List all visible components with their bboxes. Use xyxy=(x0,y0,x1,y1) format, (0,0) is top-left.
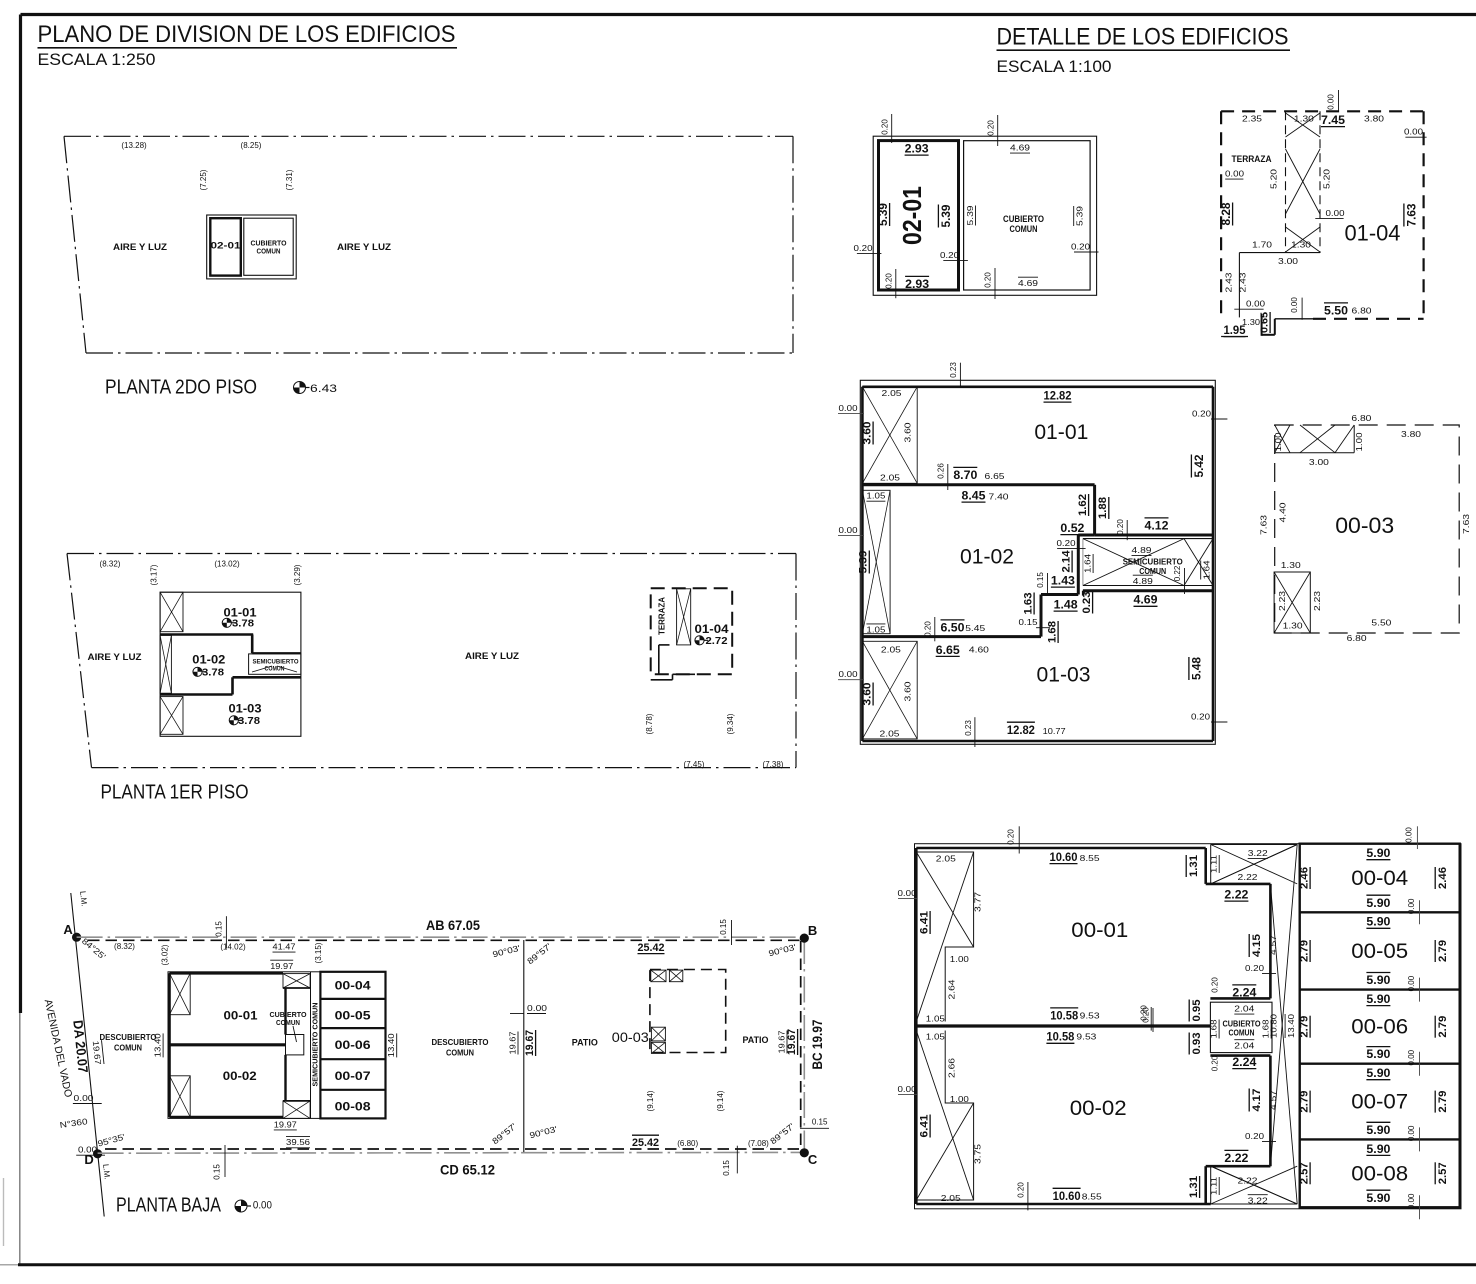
dimension 4.15 xyxy=(1249,934,1263,957)
dimension 5.39 01-02 xyxy=(858,551,870,574)
dimension (3.02) xyxy=(161,944,170,965)
dimension 2.79 right 00-07 xyxy=(1435,1091,1449,1113)
svg-text:6.65: 6.65 xyxy=(985,471,1005,481)
svg-text:12.82: 12.82 xyxy=(1044,389,1072,403)
dimension 2.22 bottom triangle xyxy=(1238,1176,1258,1186)
label 01-04 +2.72 xyxy=(695,624,730,647)
dimension 6.41 00-01 xyxy=(919,911,931,934)
svg-text:5.39: 5.39 xyxy=(965,205,975,225)
svg-text:19.67: 19.67 xyxy=(776,1030,786,1053)
dimension 5.42 xyxy=(1191,454,1206,477)
dimension 0.00 00-05 xyxy=(1407,975,1420,1001)
svg-text:5.39: 5.39 xyxy=(858,551,870,574)
patio shaft 00-01 top-left xyxy=(170,973,191,1014)
svg-text:5.20: 5.20 xyxy=(1269,169,1279,189)
svg-text:4.60: 4.60 xyxy=(969,645,989,655)
svg-text:8.28: 8.28 xyxy=(1219,202,1233,225)
dimension 3.75 xyxy=(973,1144,983,1164)
label TERRAZA detail xyxy=(1232,154,1272,164)
svg-text:0.00: 0.00 xyxy=(78,1145,97,1155)
dimension 0.00 mid xyxy=(1315,208,1345,219)
dimension 19.97 top xyxy=(270,960,293,971)
svg-text:0.00: 0.00 xyxy=(1246,299,1265,309)
svg-text:1.00: 1.00 xyxy=(950,954,969,964)
dimension (13.28) xyxy=(121,141,147,150)
dimension (7.38) xyxy=(763,760,784,769)
svg-text:2.14: 2.14 xyxy=(1061,550,1073,573)
svg-text:2.43: 2.43 xyxy=(1224,272,1234,292)
svg-text:2.04: 2.04 xyxy=(1234,1041,1254,1051)
dimension 2.05 bottom 00-02 xyxy=(941,1193,961,1203)
property line AB xyxy=(77,937,805,940)
svg-text:0.15: 0.15 xyxy=(722,1160,731,1176)
svg-text:2.72: 2.72 xyxy=(706,635,728,647)
dimension 0.20 top-mid xyxy=(987,115,998,146)
svg-text:(3.29): (3.29) xyxy=(293,564,302,585)
svg-text:0.23: 0.23 xyxy=(949,362,958,378)
svg-text:10.80: 10.80 xyxy=(1269,1014,1279,1038)
benchmark 6.43 xyxy=(294,382,338,396)
svg-text:1.30: 1.30 xyxy=(1281,560,1301,570)
svg-text:5.90: 5.90 xyxy=(1366,1047,1390,1061)
svg-text:0.00: 0.00 xyxy=(839,525,858,535)
dimension 9.53 lower xyxy=(1076,1032,1096,1042)
svg-text:3.75: 3.75 xyxy=(973,1144,983,1164)
svg-text:6.65: 6.65 xyxy=(936,643,960,657)
svg-text:0.15: 0.15 xyxy=(1019,617,1038,627)
angle 90°03' top xyxy=(491,943,521,960)
label CUBIERTO COMUN xyxy=(270,1010,307,1027)
dimension 1.05 top xyxy=(866,491,885,502)
dimension 0.23 top xyxy=(949,362,960,387)
label 0.00 at D xyxy=(76,1145,105,1156)
svg-text:5.39: 5.39 xyxy=(939,204,953,227)
label 00-05 detail xyxy=(1351,940,1408,963)
svg-text:0.15: 0.15 xyxy=(812,1118,828,1127)
label AVENIDA DEL VADO xyxy=(42,998,75,1098)
label L.M. below D xyxy=(101,1164,112,1180)
svg-text:0.20: 0.20 xyxy=(1057,538,1076,548)
svg-text:PLANTA BAJA: PLANTA BAJA xyxy=(116,1195,222,1217)
svg-text:0.20: 0.20 xyxy=(987,120,996,136)
svg-text:19.67: 19.67 xyxy=(786,1029,798,1055)
svg-text:COMUN: COMUN xyxy=(265,666,285,673)
svg-text:2.22: 2.22 xyxy=(1224,1151,1248,1165)
svg-text:2.57: 2.57 xyxy=(1299,1162,1311,1184)
svg-text:0.20: 0.20 xyxy=(1192,409,1211,419)
dimension 4.12 xyxy=(1145,518,1169,533)
svg-text:25.42: 25.42 xyxy=(632,1137,659,1149)
dimension 2.23 right xyxy=(1312,591,1322,611)
label 02-01 xyxy=(211,241,242,252)
svg-text:01-01: 01-01 xyxy=(1034,421,1088,444)
svg-text:0.26: 0.26 xyxy=(937,463,946,479)
dimension 19.67 right bold xyxy=(786,1029,798,1055)
dimension 5.20 left xyxy=(1269,169,1279,189)
svg-text:2.79: 2.79 xyxy=(1299,1016,1311,1038)
street line DA (L.M.) xyxy=(71,893,104,1217)
dimension 6.80 bottom xyxy=(1352,306,1372,316)
svg-text:0.00: 0.00 xyxy=(527,1003,547,1013)
unit 00-03 detail dashed outline xyxy=(1275,425,1460,633)
dimension 0.23 near 1.48 xyxy=(1081,592,1093,614)
stair shaft 01-04 xyxy=(677,589,691,645)
svg-text:(14.02): (14.02) xyxy=(220,943,246,952)
svg-text:0.95: 0.95 xyxy=(1191,1000,1203,1022)
dimension 0.00 bottom-left xyxy=(1234,299,1265,310)
svg-text:3.22: 3.22 xyxy=(1248,848,1268,858)
dimension 0.65 xyxy=(1259,312,1271,333)
svg-text:DETALLE DE LOS EDIFICIOS: DETALLE DE LOS EDIFICIOS xyxy=(997,24,1289,51)
terrace step solid walls xyxy=(1239,253,1320,318)
svg-text:7.40: 7.40 xyxy=(989,492,1009,502)
svg-text:(13.28): (13.28) xyxy=(121,141,147,150)
dimension 0.20 top 00 xyxy=(1007,826,1020,853)
dimension 2.22 bottom xyxy=(1224,1150,1248,1165)
dimension 5.50 xyxy=(1371,618,1391,628)
dimension 1.05 00-01 xyxy=(926,1014,945,1024)
dimension 1.00 00-01 xyxy=(950,954,969,964)
dimension 8.45 xyxy=(962,489,986,503)
svg-text:5.42: 5.42 xyxy=(1192,454,1206,477)
dimension 4.40 xyxy=(1278,502,1288,522)
svg-text:0.00: 0.00 xyxy=(1326,208,1345,218)
dimension 5.39 left xyxy=(876,203,890,226)
svg-text:2.22: 2.22 xyxy=(1238,1176,1258,1186)
svg-text:0.23: 0.23 xyxy=(1081,592,1093,614)
svg-text:(7.45): (7.45) xyxy=(684,760,705,769)
svg-text:1.64: 1.64 xyxy=(1202,560,1212,579)
svg-text:4.17: 4.17 xyxy=(1251,1089,1263,1112)
label BC 19.97 xyxy=(810,1020,825,1070)
svg-text:0.00: 0.00 xyxy=(1405,827,1414,843)
dimension 1.68 right xyxy=(1261,1019,1272,1038)
svg-text:10.58: 10.58 xyxy=(1050,1009,1078,1023)
unit 02-01 cell xyxy=(210,218,241,275)
node C xyxy=(800,1148,818,1167)
dimension 19.67 right small xyxy=(776,1030,787,1053)
label 0.00 at divider xyxy=(510,1003,547,1014)
dimension 0.20 mid xyxy=(940,250,968,261)
svg-text:0.20: 0.20 xyxy=(1191,712,1210,722)
dimension 5.48 xyxy=(1189,657,1204,680)
dimension 2.93 bottom xyxy=(905,276,929,291)
cubierto comun box detail xyxy=(1210,1002,1272,1052)
label SEMICUBIERTO COMUN detail xyxy=(1123,557,1183,577)
svg-text:5.90: 5.90 xyxy=(1366,846,1390,860)
dimension (13.02) xyxy=(214,560,240,569)
dimension 1.63 xyxy=(1023,593,1035,615)
dimension 1.00 left xyxy=(1273,432,1283,451)
svg-text:CUBIERTO: CUBIERTO xyxy=(251,241,288,248)
label 00-02 detail xyxy=(1070,1097,1127,1120)
svg-text:1.64: 1.64 xyxy=(1083,554,1093,573)
svg-text:ESCALA 1:100: ESCALA 1:100 xyxy=(997,57,1112,76)
svg-text:3.22: 3.22 xyxy=(1248,1196,1268,1206)
svg-text:PLANO DE DIVISION DE LOS: PLANO DE DIVISION DE LOS EDIFICIOS xyxy=(38,21,456,48)
units column 00-04..00-08 xyxy=(320,972,385,1119)
dimension 0.52 xyxy=(1060,521,1084,535)
dimension 1.05 00-02 xyxy=(926,1032,945,1042)
svg-text:2.22: 2.22 xyxy=(1224,888,1248,902)
svg-text:02-01: 02-01 xyxy=(211,241,242,252)
node A xyxy=(63,922,81,942)
dimension 0.00 00-04 xyxy=(1407,898,1420,924)
svg-text:2.79: 2.79 xyxy=(1437,1016,1449,1038)
cubierto comun cell xyxy=(244,218,293,275)
dimension 1.68 left xyxy=(1209,1019,1220,1038)
svg-text:13.40: 13.40 xyxy=(153,1033,163,1057)
svg-text:2.46: 2.46 xyxy=(1437,867,1449,889)
svg-text:00-03: 00-03 xyxy=(612,1029,649,1045)
building 00 outer outline xyxy=(168,972,386,1119)
svg-text:10.77: 10.77 xyxy=(1043,726,1066,736)
svg-text:0.20: 0.20 xyxy=(885,273,894,289)
dimension 2.46 right 00-04 xyxy=(1435,867,1449,889)
label TERRAZA xyxy=(658,597,667,635)
svg-text:0.15: 0.15 xyxy=(215,921,224,937)
dimension 2.79 left 00-05 xyxy=(1299,940,1311,962)
svg-text:TERRAZA: TERRAZA xyxy=(1232,154,1272,164)
dimension 3.60 bold xyxy=(862,422,874,445)
00-03 shafts top xyxy=(651,970,683,982)
dimension 3.00 xyxy=(1278,256,1298,266)
svg-text:0.20: 0.20 xyxy=(1245,963,1264,973)
svg-text:(7.25): (7.25) xyxy=(199,169,208,190)
label DA 20.07 along street xyxy=(70,1019,90,1073)
svg-text:0.00: 0.00 xyxy=(1407,1193,1416,1209)
dimension (3.29) xyxy=(293,564,302,585)
svg-text:1.88: 1.88 xyxy=(1097,497,1109,519)
cubierto comun stair box xyxy=(286,1026,304,1055)
svg-text:B: B xyxy=(808,923,817,938)
svg-text:1.30: 1.30 xyxy=(1294,114,1314,124)
dimension 4.69 bottom xyxy=(1018,277,1038,288)
svg-text:4.89: 4.89 xyxy=(1132,545,1152,555)
svg-text:5.90: 5.90 xyxy=(1366,915,1390,929)
dimension 7.63 left xyxy=(1259,515,1269,535)
svg-text:0.15: 0.15 xyxy=(719,919,728,935)
svg-text:02-01: 02-01 xyxy=(897,186,927,245)
dimension 0.15 bottom xyxy=(213,1145,226,1180)
entry triangle bottom xyxy=(1211,1166,1298,1204)
svg-text:(8.25): (8.25) xyxy=(241,141,262,150)
node D xyxy=(84,1149,102,1167)
dimension 19.67 small xyxy=(507,1031,518,1054)
svg-text:19.67: 19.67 xyxy=(507,1031,517,1054)
dimension 0.00 bottom-mid xyxy=(1290,297,1302,320)
dimension 2.22 top xyxy=(1224,888,1248,902)
dimension 0.20 near 4.12 xyxy=(1116,519,1127,541)
dimension 1.70 xyxy=(1252,240,1272,250)
svg-text:C: C xyxy=(808,1152,818,1167)
label 00-08 detail xyxy=(1351,1162,1408,1185)
svg-text:5.50: 5.50 xyxy=(1371,618,1391,628)
svg-text:0.00: 0.00 xyxy=(1404,127,1423,137)
svg-text:6.41: 6.41 xyxy=(919,911,931,934)
dimension 5.90 bottom 00-04 xyxy=(1366,895,1390,910)
svg-text:0.52: 0.52 xyxy=(1060,521,1084,535)
svg-text:1.70: 1.70 xyxy=(1252,240,1272,250)
svg-text:SEMICUBIERTO: SEMICUBIERTO xyxy=(253,659,299,666)
svg-text:9.53: 9.53 xyxy=(1080,1011,1100,1021)
svg-text:8.45: 8.45 xyxy=(962,489,986,503)
dimension 5.90 bottom 00-07 xyxy=(1366,1122,1390,1137)
dimension 5.90 top 00-08 xyxy=(1366,1142,1390,1156)
label 00-01 detail xyxy=(1071,919,1128,942)
svg-text:0.20: 0.20 xyxy=(1007,829,1016,845)
svg-text:3.60: 3.60 xyxy=(862,683,874,706)
label 01-01 detail xyxy=(1034,421,1088,444)
unit 02-01 detail walls xyxy=(879,141,959,290)
svg-text:COMUN: COMUN xyxy=(276,1018,300,1027)
svg-text:2.35: 2.35 xyxy=(1242,114,1262,124)
label 95°35' xyxy=(96,1132,126,1149)
dimension 13.40 right xyxy=(386,1033,397,1057)
svg-text:3.78: 3.78 xyxy=(232,618,254,630)
svg-text:AIRE Y LUZ: AIRE Y LUZ xyxy=(113,242,168,252)
svg-text:3.78: 3.78 xyxy=(202,667,224,679)
dimension (9.14) right xyxy=(716,1090,725,1111)
svg-text:(8.32): (8.32) xyxy=(100,560,121,569)
detail 02 outer outline xyxy=(873,136,1096,295)
dimension 2.57 right 00-08 xyxy=(1435,1162,1449,1184)
svg-text:0.00: 0.00 xyxy=(839,403,858,413)
dimension 2.14 xyxy=(1061,550,1073,573)
svg-text:0.20: 0.20 xyxy=(924,621,933,637)
dimension 1.11 top xyxy=(1209,855,1220,873)
svg-text:5.90: 5.90 xyxy=(1366,1123,1390,1137)
svg-text:0.20: 0.20 xyxy=(1142,1007,1151,1023)
svg-text:5.50: 5.50 xyxy=(1324,304,1348,318)
dimension 1.31 top xyxy=(1186,855,1200,877)
label AIRE Y LUZ left xyxy=(113,242,168,252)
svg-text:CD 65.12: CD 65.12 xyxy=(440,1163,495,1178)
label AIRE Y LUZ left xyxy=(88,652,143,662)
svg-text:2.79: 2.79 xyxy=(1299,1091,1311,1113)
label 00-07 xyxy=(335,1069,371,1083)
svg-text:0.00: 0.00 xyxy=(839,669,858,679)
svg-text:3.60: 3.60 xyxy=(862,422,874,445)
dimension 2.05 bottom 01-03 xyxy=(880,729,900,739)
entry shaft 00-02 bottom-right xyxy=(283,1101,310,1119)
svg-text:4.69: 4.69 xyxy=(1018,278,1038,288)
unit 01-01 walls xyxy=(160,635,301,654)
dimension 25.42 bottom xyxy=(632,1135,659,1149)
dimension 1.30 mid xyxy=(1291,240,1311,250)
svg-text:4.69: 4.69 xyxy=(1010,143,1030,153)
building 02 outer outline xyxy=(207,215,297,279)
dimension 1.30 bottom shaft xyxy=(1283,621,1303,631)
angle 90°03' top near B xyxy=(767,942,797,959)
dimension 2.05 top 00-01 xyxy=(936,854,956,864)
svg-text:0.00: 0.00 xyxy=(253,1200,272,1212)
svg-text:8.55: 8.55 xyxy=(1082,1191,1102,1201)
dimension (8.25) xyxy=(241,141,262,150)
svg-text:2.24: 2.24 xyxy=(1232,1055,1256,1069)
label CD 65.12 xyxy=(440,1163,495,1178)
svg-text:01-02: 01-02 xyxy=(192,655,225,667)
svg-text:19.67: 19.67 xyxy=(524,1030,536,1056)
svg-text:0.00: 0.00 xyxy=(1407,1125,1416,1141)
wall 4.69 top of 01-03 xyxy=(1083,589,1213,592)
dimension 0.23 bottom xyxy=(964,717,975,747)
svg-text:1.11: 1.11 xyxy=(1209,1177,1219,1195)
svg-text:5.90: 5.90 xyxy=(1366,973,1390,987)
svg-text:4.57: 4.57 xyxy=(1268,935,1278,955)
dimension 8.55 top xyxy=(1080,853,1100,863)
svg-text:2.04: 2.04 xyxy=(1234,1004,1254,1014)
dimension 3.80 top xyxy=(1364,114,1384,124)
svg-text:CUBIERTO: CUBIERTO xyxy=(1223,1020,1261,1029)
svg-text:2.05: 2.05 xyxy=(882,388,902,398)
svg-text:1.05: 1.05 xyxy=(866,491,885,501)
title PLANO DE DIVISION DE LOS EDIFICIOS xyxy=(38,21,458,48)
svg-text:1.68: 1.68 xyxy=(1047,621,1059,643)
dimension 3.77 xyxy=(973,892,983,912)
dimension 1.64 left xyxy=(1083,554,1094,573)
svg-text:0.20: 0.20 xyxy=(1071,242,1090,252)
00-03 shafts left xyxy=(651,1027,665,1053)
jog 0.23 wall xyxy=(1082,591,1085,596)
svg-text:2.43: 2.43 xyxy=(1238,272,1248,292)
label 01-03 detail xyxy=(1037,664,1091,687)
svg-text:0.20: 0.20 xyxy=(881,119,890,135)
svg-text:(7.31): (7.31) xyxy=(285,169,294,190)
svg-text:01-03: 01-03 xyxy=(1037,664,1091,687)
svg-text:ESCALA 1:250: ESCALA 1:250 xyxy=(38,50,156,69)
dimension 0.00 left 01-03 xyxy=(838,669,864,680)
dimension 0.95 xyxy=(1189,1000,1203,1022)
dimension (7.31) xyxy=(285,169,294,190)
stair shaft 01-01 xyxy=(160,592,183,632)
svg-text:00-01: 00-01 xyxy=(224,1009,258,1023)
dimension 0.00 00-07 xyxy=(1407,1125,1420,1151)
svg-text:2.66: 2.66 xyxy=(947,1058,957,1078)
dimension (8.78) xyxy=(645,713,654,734)
dimension 4.89 top xyxy=(1132,545,1152,556)
dimension 10.60 top xyxy=(1050,850,1078,864)
svg-text:COMUN: COMUN xyxy=(1139,566,1166,576)
svg-text:0.20: 0.20 xyxy=(1211,1055,1220,1071)
svg-text:7.45: 7.45 xyxy=(1321,113,1345,127)
svg-text:2.23: 2.23 xyxy=(1312,591,1322,611)
svg-text:DESCUBIERTO: DESCUBIERTO xyxy=(432,1037,489,1047)
jog walls bottom-right of 00-02 xyxy=(1206,1056,1271,1204)
svg-text:1.05: 1.05 xyxy=(926,1014,945,1024)
svg-text:0.00: 0.00 xyxy=(1327,94,1336,110)
property line BC xyxy=(801,938,805,1153)
planta 2do piso property boundary xyxy=(64,136,793,353)
dimension 5.90 top 00-07 xyxy=(1366,1066,1390,1080)
svg-text:5.90: 5.90 xyxy=(1366,1066,1390,1080)
entry shaft 00-01 top-right xyxy=(283,974,310,988)
label 01-04 detail xyxy=(1345,221,1401,246)
dimension 4.69 01-03 xyxy=(1134,593,1158,607)
svg-text:00-03: 00-03 xyxy=(1335,513,1394,538)
dimension 2.24 under xyxy=(1232,1055,1256,1069)
dimension 8.70 xyxy=(953,467,977,482)
dimension 7.40 xyxy=(989,492,1009,502)
dimension 0.20 left of strip xyxy=(1057,538,1086,549)
dimension 19.67 bold xyxy=(524,1030,536,1056)
node B xyxy=(800,923,817,943)
patio shaft 00-01 detail xyxy=(916,852,973,1022)
svg-text:3.77: 3.77 xyxy=(973,892,983,912)
dimension 12.82 top xyxy=(1044,389,1072,403)
svg-text:25.42: 25.42 xyxy=(638,942,665,954)
svg-text:2.79: 2.79 xyxy=(1299,940,1311,962)
